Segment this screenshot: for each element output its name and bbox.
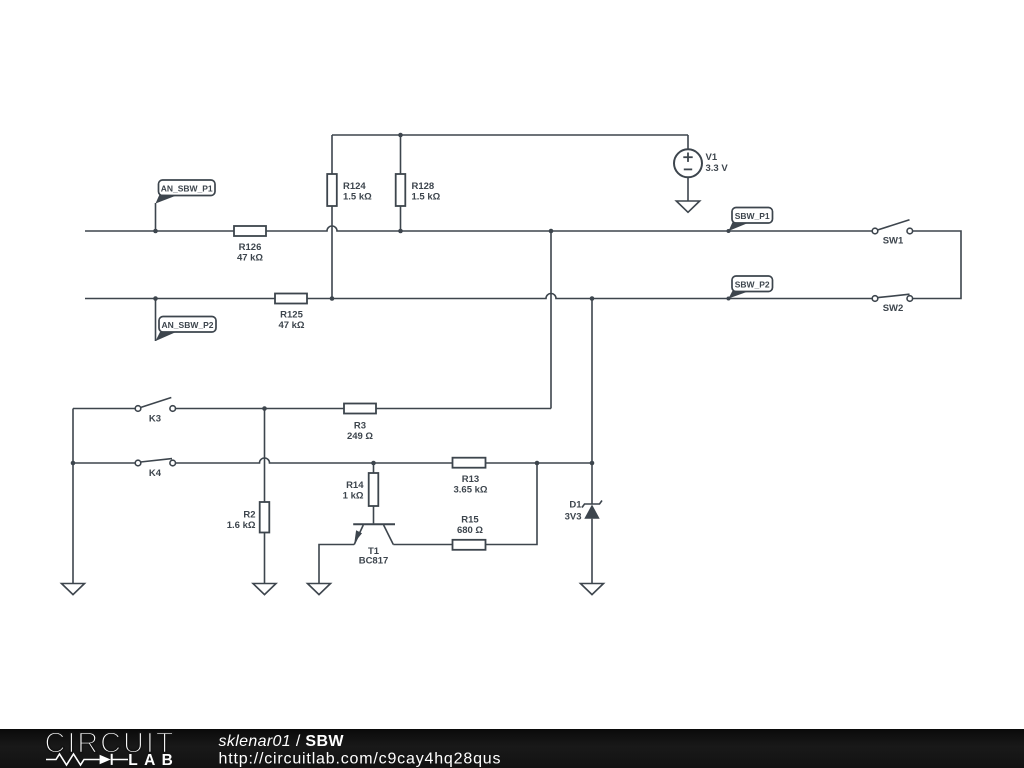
svg-text:sklenar01 / SBW: sklenar01 / SBW [219,733,345,750]
svg-text:R128: R128 [412,181,435,192]
svg-text:249 Ω: 249 Ω [347,431,373,442]
svg-text:SW2: SW2 [883,303,904,314]
svg-text:V1: V1 [706,152,718,163]
svg-text:R124: R124 [343,181,366,192]
svg-text:LAB: LAB [128,752,173,768]
svg-text:R14: R14 [346,480,364,491]
svg-text:http://circuitlab.com/c9cay4hq: http://circuitlab.com/c9cay4hq28qus [219,750,501,767]
svg-text:K3: K3 [149,414,161,425]
svg-text:AN_SBW_P2: AN_SBW_P2 [162,320,214,330]
svg-text:1.5 kΩ: 1.5 kΩ [412,192,441,203]
svg-text:1.6 kΩ: 1.6 kΩ [227,520,256,531]
svg-text:D1: D1 [569,500,582,511]
svg-text:BC817: BC817 [359,555,389,566]
svg-text:SBW_P1: SBW_P1 [735,211,770,221]
svg-text:R13: R13 [462,474,479,485]
svg-text:SW1: SW1 [883,236,904,247]
svg-text:47 kΩ: 47 kΩ [237,253,263,264]
svg-text:3.3 V: 3.3 V [706,163,729,174]
svg-text:R126: R126 [239,242,262,253]
svg-text:R125: R125 [280,310,303,321]
svg-text:1 kΩ: 1 kΩ [343,491,364,502]
svg-text:AN_SBW_P1: AN_SBW_P1 [161,184,213,194]
svg-text:47 kΩ: 47 kΩ [278,320,304,331]
svg-text:K4: K4 [149,468,162,479]
svg-text:R15: R15 [461,515,479,526]
svg-text:1.5 kΩ: 1.5 kΩ [343,192,372,203]
svg-text:3V3: 3V3 [565,511,582,522]
svg-text:SBW_P2: SBW_P2 [735,280,770,290]
svg-text:R3: R3 [354,421,366,432]
svg-text:680 Ω: 680 Ω [457,525,483,536]
svg-text:3.65 kΩ: 3.65 kΩ [453,485,487,496]
svg-text:R2: R2 [243,509,255,520]
